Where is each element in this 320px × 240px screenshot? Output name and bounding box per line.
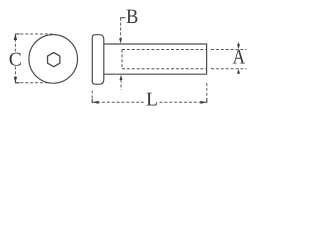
head (side view) bbox=[92, 35, 104, 84]
dim C extension top bbox=[15, 33, 54, 35]
dim C arrow up bbox=[14, 34, 17, 40]
dim C extension bottom bbox=[15, 82, 49, 84]
dim B tick bbox=[120, 17, 125, 19]
svg-text:A: A bbox=[233, 45, 246, 69]
dim C line lower bbox=[14, 67, 16, 83]
svg-text:B: B bbox=[126, 6, 138, 28]
label A bbox=[233, 45, 246, 69]
hidden bore top bbox=[122, 49, 207, 51]
lower leader arrow bbox=[120, 75, 123, 80]
dim L arrow left bbox=[93, 101, 99, 104]
dim L extension right bbox=[206, 83, 208, 102]
barrel body bbox=[104, 44, 207, 74]
dim B arrow bbox=[119, 38, 122, 43]
dim A line lower bbox=[238, 72, 240, 74]
hex socket bbox=[48, 53, 60, 67]
dim C line upper bbox=[14, 34, 16, 52]
label B bbox=[126, 6, 138, 28]
svg-text:C: C bbox=[9, 49, 22, 70]
dim A extension bottom bbox=[211, 68, 247, 70]
dim C arrow down bbox=[14, 77, 17, 83]
dim B leader bbox=[120, 18, 122, 40]
svg-text:L: L bbox=[146, 90, 158, 111]
dim A extension top bbox=[211, 49, 247, 51]
hidden bore end bbox=[121, 50, 123, 69]
head outline circle (front view) bbox=[29, 35, 78, 84]
hidden bore bottom bbox=[122, 68, 207, 70]
dim A line upper bbox=[238, 43, 240, 45]
dim A arrow up bbox=[237, 69, 240, 74]
dim L arrow right bbox=[200, 101, 206, 104]
dim A arrow down bbox=[237, 44, 240, 49]
lower leader bbox=[120, 80, 122, 90]
dim L extension left bbox=[91, 91, 93, 103]
dim L line right bbox=[160, 101, 203, 103]
dim L line left bbox=[97, 101, 144, 103]
